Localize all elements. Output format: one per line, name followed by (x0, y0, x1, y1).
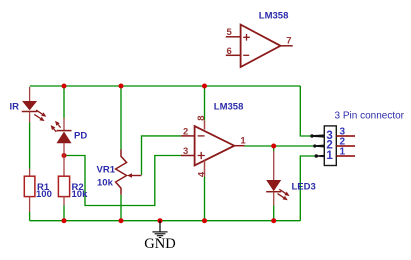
svg-text:LM358: LM358 (214, 102, 244, 113)
svg-text:LED3: LED3 (292, 181, 316, 192)
svg-text:6: 6 (227, 46, 232, 57)
svg-text:4: 4 (196, 171, 207, 177)
svg-text:10k: 10k (97, 178, 114, 189)
svg-text:IR: IR (10, 102, 20, 113)
svg-text:PD: PD (74, 131, 87, 142)
svg-text:VR1: VR1 (97, 165, 116, 176)
svg-text:3: 3 (183, 146, 188, 157)
svg-text:LM358: LM358 (259, 11, 289, 22)
svg-text:3 Pin connector: 3 Pin connector (335, 110, 405, 121)
svg-text:2: 2 (183, 126, 188, 137)
svg-text:5: 5 (227, 27, 233, 38)
svg-text:1: 1 (326, 150, 333, 162)
svg-text:7: 7 (286, 36, 291, 47)
svg-text:GND: GND (144, 236, 175, 252)
svg-text:100: 100 (36, 189, 52, 200)
svg-text:8: 8 (196, 115, 207, 120)
svg-text:1: 1 (340, 146, 346, 157)
svg-text:10k: 10k (72, 189, 89, 200)
svg-text:1: 1 (240, 136, 246, 147)
